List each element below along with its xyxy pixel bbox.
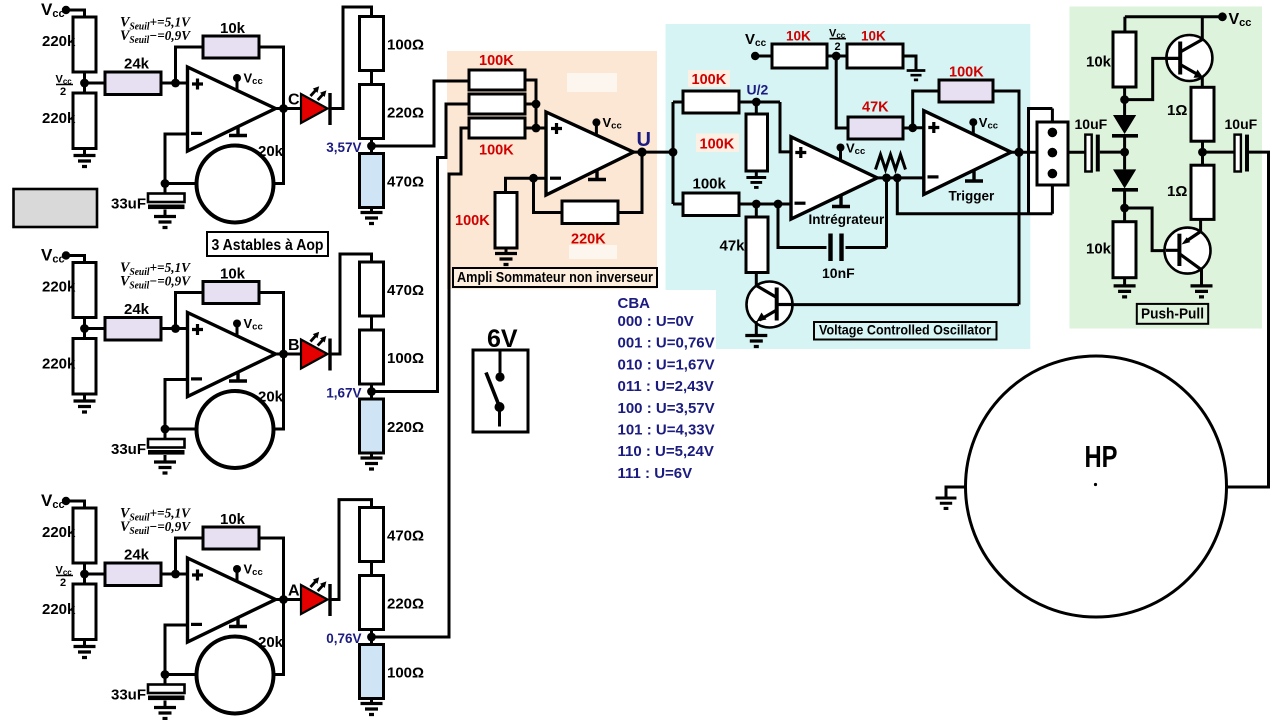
V_Seuil annotation astable A [120, 506, 192, 538]
feedback wire to 10k astable C [176, 47, 204, 83]
wire 100K to U/2 node [739, 101, 780, 104]
resistor 47k vertical [746, 217, 768, 273]
resistor R2 100K summing [469, 94, 525, 114]
svg-text:220Ω: 220Ω [387, 419, 424, 436]
Vcc supply VCO bias [745, 31, 767, 49]
wire 1ohm junction [1201, 141, 1204, 165]
svg-text:47K: 47K [862, 100, 889, 116]
svg-text:3 Astables à Aop: 3 Astables à Aop [212, 237, 324, 254]
ground chain astable C [361, 208, 383, 224]
svg-text:2: 2 [835, 41, 841, 53]
wire Vcc to divider astable A [66, 501, 85, 508]
node plus input astable A [171, 570, 180, 579]
potentiometer 20k astable A [197, 637, 274, 714]
op-amp ground pin integrator [832, 196, 850, 207]
Vcc node astable B [62, 251, 70, 259]
wire 10k to output astable B [259, 293, 284, 355]
wire emitter Q3 to 1ohm [1199, 219, 1202, 231]
VCO section background (cyan) [666, 24, 1031, 349]
node Vcc/2 VCO [832, 52, 841, 61]
resistor 10k astable A [203, 527, 259, 549]
svg-text:111 : U=6V: 111 : U=6V [618, 465, 693, 482]
wire to 100K input resistor [673, 101, 683, 104]
ground speaker [936, 498, 957, 508]
tap node astable A [367, 633, 376, 642]
svg-text:10k: 10k [1086, 54, 1112, 71]
wire R1 R2 R3 to plus input [525, 80, 546, 128]
wire 10K junction Vcc/2 [827, 55, 847, 58]
svg-text:100Ω: 100Ω [387, 350, 424, 367]
wire LED to resistor chain astable C [330, 7, 372, 109]
highlight 100K label upper [688, 70, 730, 87]
ground 10k lower [1114, 278, 1136, 297]
svg-text:10K: 10K [861, 29, 886, 44]
svg-text:3,57V: 3,57V [326, 140, 361, 155]
svg-text:10uF: 10uF [1225, 116, 1258, 132]
svg-text:Vcc: Vcc [244, 316, 263, 333]
svg-text:100K: 100K [479, 143, 514, 159]
svg-text:470Ω: 470Ω [387, 282, 424, 299]
wire D2 to lower node [1123, 190, 1126, 222]
svg-text:1,67V: 1,67V [326, 386, 361, 401]
node minus input summing [529, 174, 538, 183]
svg-text:C: C [288, 92, 300, 109]
wire 24k to plus input astable A [161, 573, 188, 576]
wire Vcc to divider astable C [66, 10, 85, 17]
resistor 24k astable C [105, 72, 161, 95]
svg-text:100K: 100K [479, 53, 514, 69]
wire 220K to minus input [506, 178, 563, 212]
wire 10K right to ground [903, 56, 916, 70]
ground 33uF astable B [154, 462, 176, 473]
potentiometer 20k astable C [197, 146, 274, 223]
resistor 100Ω chain C position 1 [360, 17, 384, 71]
Vcc node push-pull [1218, 12, 1227, 21]
node capacitor 33uF astable C [161, 179, 170, 188]
wire 10k to output astable A [259, 538, 284, 600]
transistor Q1 VCO discharge [747, 282, 793, 328]
wire emitter Q2 to 1ohm [1201, 76, 1204, 87]
node 10nF branch [774, 200, 783, 209]
wire integrator output to trigger minus [877, 176, 924, 179]
node U/2 [752, 98, 761, 107]
sawtooth waveform icon [876, 155, 906, 170]
white patch lower in summing section [569, 245, 617, 259]
LED astable C [301, 86, 330, 125]
wire connector middle pin to cap [1068, 151, 1085, 154]
svg-text:24k: 24k [124, 547, 150, 564]
svg-text:220k: 220k [42, 356, 76, 373]
wire Vcc/2 down to 47K [836, 56, 848, 128]
svg-text:100Ω: 100Ω [387, 665, 424, 682]
node integrator output cap branch [882, 174, 891, 183]
feedback wire to 10k astable B [176, 293, 204, 329]
svg-text:Vcc: Vcc [41, 246, 65, 266]
svg-text:100K: 100K [700, 137, 735, 153]
resistor 100K to ground summing [495, 193, 517, 249]
node Vcc/2 astable C [80, 79, 89, 88]
wire potentiometer left astable C [165, 182, 197, 185]
svg-text:U: U [637, 129, 651, 151]
svg-text:33uF: 33uF [111, 196, 146, 213]
wire minus input to cap node astable C [165, 134, 188, 184]
Vcc supply push-pull [1229, 11, 1252, 29]
label Vcc/2 astable C [56, 74, 74, 99]
svg-text:24k: 24k [124, 301, 150, 318]
svg-text:24k: 24k [124, 56, 150, 73]
node diode midpoint [1120, 148, 1129, 157]
wire Vcc to divider astable B [66, 256, 85, 263]
capacitor 33uF astable A [148, 675, 185, 708]
label Vcc/2 VCO [829, 28, 846, 54]
op-amp Vcc pin astable A [233, 562, 263, 582]
svg-text:10nF: 10nF [822, 265, 855, 281]
speaker center dot [1094, 483, 1097, 486]
push-pull section background (green) [1070, 7, 1263, 329]
node trigger plus input [908, 123, 917, 132]
svg-text:001 : U=0,76V: 001 : U=0,76V [618, 335, 715, 352]
ground Q3 [1191, 286, 1213, 297]
node trigger output [1014, 148, 1023, 157]
op-amp astable C [188, 67, 276, 151]
resistor 1ohm upper [1191, 87, 1214, 141]
V_Seuil annotation astable B [120, 260, 192, 292]
Vcc node astable C [62, 6, 70, 14]
connector 3-pin [1037, 122, 1068, 185]
wire 47k to transistor [755, 273, 758, 287]
svg-text:20k: 20k [258, 634, 284, 651]
ground 100K U/2 [746, 171, 766, 187]
resistor 10k upper push-pull [1113, 32, 1136, 87]
op-amp integrator [791, 137, 877, 219]
svg-text:Ampli Sommateur non inverseur: Ampli Sommateur non inverseur [457, 270, 653, 286]
grey legend box [14, 189, 98, 227]
chain connecting wires astable B [370, 316, 373, 399]
resistor 470Ω chain A position 1 [360, 508, 384, 562]
wire U/2 to integrator plus [780, 102, 791, 152]
svg-text:010 : U=1,67V: 010 : U=1,67V [618, 356, 715, 373]
svg-text:220Ω: 220Ω [387, 105, 424, 122]
node integrator output connector branch [893, 174, 902, 183]
wire 10k to output astable C [259, 47, 284, 109]
resistor 24k astable A [105, 563, 161, 586]
resistor 220k lower divider astable C [73, 93, 96, 149]
resistor 47K lavender [848, 117, 903, 139]
wire base upper transistor [1125, 58, 1167, 99]
svg-text:100k: 100k [693, 176, 727, 193]
wire output to potentiometer astable A [274, 600, 284, 675]
svg-text:10uF: 10uF [1075, 116, 1108, 132]
Vcc node astable A [62, 497, 70, 505]
ground 33uF astable A [154, 708, 176, 719]
op-amp Vcc pin astable C [233, 71, 263, 91]
resistor R3 100K summing [469, 118, 525, 138]
resistor 100K U/2 to ground [746, 114, 768, 171]
wire trigger feedback [913, 91, 1019, 152]
node U output [637, 148, 646, 157]
wire minus input to cap node astable A [165, 625, 188, 675]
op-amp Vcc pin trigger [969, 115, 998, 134]
op-amp U summing [546, 112, 634, 195]
capacitor 10uF input [1085, 135, 1100, 172]
wire D1 to mid node [1123, 136, 1126, 170]
resistor 10k astable C [203, 36, 259, 58]
svg-text:220k: 220k [42, 524, 76, 541]
svg-text:110 : U=5,24V: 110 : U=5,24V [618, 443, 714, 460]
ground 100K summing [495, 248, 517, 265]
diode D2 [1112, 169, 1138, 189]
resistor 220k upper divider astable C [73, 17, 96, 72]
svg-text:100K: 100K [692, 72, 727, 88]
resistor 220Ω chain C position 2 [360, 85, 384, 139]
op-amp astable B [188, 313, 276, 397]
resistor 220k lower divider astable B [73, 339, 96, 395]
op-amp ground pin astable B [229, 372, 247, 381]
speaker HP [966, 356, 1227, 617]
label box Voltage Controlled Oscillator [814, 322, 997, 340]
svg-text:100K: 100K [455, 213, 490, 229]
node plus input summing [532, 124, 541, 133]
highlight 100K label lower [696, 134, 739, 153]
op-amp ground pin astable C [229, 127, 247, 136]
svg-text:2: 2 [60, 86, 66, 98]
ground divider astable C [74, 149, 96, 167]
tap node astable B [367, 387, 376, 396]
svg-text:47k: 47k [720, 238, 746, 255]
ground divider astable B [74, 394, 96, 412]
wire output to LED astable A [276, 598, 302, 601]
wire tap B to summing resistor [372, 104, 470, 392]
LED astable A [301, 577, 330, 616]
wire divider middle astable C [83, 72, 86, 93]
node base upper [1120, 95, 1129, 104]
svg-text:011 : U=2,43V: 011 : U=2,43V [618, 378, 714, 395]
wire U into VCO [672, 102, 675, 204]
node capacitor 33uF astable B [161, 425, 170, 434]
svg-text:0,76V: 0,76V [326, 631, 361, 646]
svg-text:220Ω: 220Ω [387, 596, 424, 613]
diode D1 [1112, 115, 1138, 136]
wire Vcc rail push-pull [1125, 17, 1223, 40]
svg-text:10K: 10K [786, 29, 811, 44]
svg-text:470Ω: 470Ω [387, 174, 424, 191]
node 47k branch [752, 200, 761, 209]
wire trigger output to transistor base [793, 152, 1020, 304]
wire LED to resistor chain astable A [330, 500, 372, 600]
feedback wire to 220K [618, 152, 642, 212]
resistor 10k lower push-pull [1113, 222, 1136, 278]
Vcc supply label astable C [41, 0, 65, 20]
svg-text:100 : U=3,57V: 100 : U=3,57V [618, 400, 715, 417]
svg-text:100Ω: 100Ω [387, 37, 424, 54]
op-amp ground pin summing [588, 170, 606, 180]
wire output to potentiometer astable B [274, 354, 284, 429]
truth table CBA [618, 295, 715, 482]
resistor 1ohm lower [1191, 165, 1214, 219]
Vcc node VCO bias [751, 52, 759, 60]
ground transistor VCO [745, 336, 767, 347]
svg-text:Vcc: Vcc [41, 491, 65, 511]
svg-text:Intrégrateur: Intrégrateur [809, 212, 886, 227]
Vcc supply label astable A [41, 491, 65, 511]
svg-text:220k: 220k [42, 33, 76, 50]
wire Vcc to 10K [755, 55, 772, 58]
ground divider astable A [74, 640, 96, 658]
ground chain astable A [361, 699, 383, 715]
wire tap C to summing resistor [372, 81, 470, 146]
capacitor 33uF astable C [148, 184, 185, 217]
resistor 10K left bias [772, 44, 827, 68]
svg-text:33uF: 33uF [111, 687, 146, 704]
resistor 220K feedback [562, 201, 618, 224]
svg-text:Vcc: Vcc [244, 562, 263, 579]
wire output to cap 10uF [1203, 151, 1235, 154]
svg-text:10k: 10k [1086, 241, 1112, 258]
resistor 100k U to minus [683, 193, 739, 216]
wire trigger output to connector [1011, 151, 1037, 154]
white patch upper in summing section [567, 73, 617, 92]
wire Vcc/2 to 24k astable B [85, 327, 106, 330]
transistor Q2 NPN upper push-pull [1166, 35, 1212, 81]
output node A [279, 595, 288, 604]
svg-text:20k: 20k [258, 389, 284, 406]
svg-text:A: A [288, 583, 300, 600]
tap node astable C [367, 142, 376, 151]
wire U/2 to resistor [755, 102, 758, 114]
wire output to potentiometer astable C [274, 109, 284, 184]
wire U to 100k [673, 203, 683, 206]
svg-text:10k: 10k [220, 20, 246, 37]
label box Push-Pull [1137, 304, 1208, 324]
wire transistor emitter to ground [755, 321, 758, 335]
resistor 220k upper divider astable B [73, 263, 96, 318]
label box 3 Astables a Aop [207, 232, 328, 256]
resistor 100Ω chain A position 3 [360, 645, 384, 699]
wire speaker to ground [946, 487, 966, 498]
svg-text:000 : U=0V: 000 : U=0V [618, 313, 694, 330]
resistor 10k astable B [203, 282, 259, 304]
wire potentiometer left astable B [165, 428, 197, 431]
svg-text:100K: 100K [949, 65, 984, 81]
resistor 220k upper divider astable A [73, 508, 96, 563]
svg-text:101 : U=4,33V: 101 : U=4,33V [618, 422, 715, 439]
ground bias VCO [907, 71, 926, 80]
node capacitor 33uF astable A [161, 670, 170, 679]
svg-text:Trigger: Trigger [949, 189, 996, 204]
svg-text:Push-Pull: Push-Pull [1141, 307, 1204, 323]
resistor 100K input to U/2 [683, 91, 739, 113]
wire U output [634, 151, 674, 154]
wire minus input to cap node astable B [165, 380, 188, 430]
Vcc supply label astable B [41, 246, 65, 266]
svg-text:33uF: 33uF [111, 441, 146, 458]
wire 24k to plus input astable C [161, 82, 188, 85]
node Vcc/2 astable A [80, 570, 89, 579]
svg-text:10k: 10k [220, 511, 246, 528]
svg-text:470Ω: 470Ω [387, 528, 424, 545]
wire 24k to plus input astable B [161, 327, 188, 330]
wire divider middle astable A [83, 563, 86, 584]
op-amp Vcc pin summing [592, 115, 621, 135]
feedback wire to 10k astable A [176, 538, 204, 574]
op-amp ground pin astable A [229, 618, 247, 627]
wire base lower transistor [1125, 208, 1166, 251]
chain connecting wires astable C [370, 71, 373, 154]
wire collector Q3 to ground [1200, 269, 1203, 285]
summing amplifier section background (orange) [447, 51, 657, 289]
switch 6V box [473, 350, 528, 432]
svg-text:Vcc: Vcc [41, 0, 65, 20]
resistor 470Ω chain C position 3 [360, 154, 384, 208]
svg-text:1Ω: 1Ω [1167, 183, 1187, 200]
svg-text:10k: 10k [220, 266, 246, 283]
svg-text:1Ω: 1Ω [1167, 102, 1187, 119]
op-amp Vcc pin integrator [837, 141, 866, 161]
svg-text:2: 2 [60, 577, 66, 589]
node base lower [1120, 204, 1129, 213]
node Vcc/2 astable B [80, 324, 89, 333]
output node B [279, 350, 288, 359]
resistor 220k lower divider astable A [73, 584, 96, 640]
chain connecting wires astable A [370, 562, 373, 645]
output node C [279, 104, 288, 113]
op-amp ground pin trigger [965, 171, 983, 182]
resistor 100K trigger feedback [939, 80, 993, 102]
potentiometer 20k astable B [197, 391, 274, 468]
wire output to LED astable B [276, 353, 302, 356]
wire 100k to integrator minus [739, 203, 791, 206]
op-amp trigger [924, 111, 1011, 195]
wire Vcc/2 to 24k astable C [85, 82, 106, 85]
transistor Q3 PNP lower push-pull [1165, 228, 1211, 274]
svg-text:20k: 20k [258, 143, 284, 160]
resistor 220Ω chain A position 2 [360, 576, 384, 630]
wire divider middle astable B [83, 318, 86, 339]
node R2 junction [532, 100, 541, 109]
LED astable B [301, 332, 330, 371]
ground chain astable B [361, 453, 383, 469]
svg-text:220k: 220k [42, 110, 76, 127]
wire 47K to trigger plus node [903, 127, 913, 130]
op-amp Vcc pin astable B [233, 316, 263, 336]
capacitor 10nF [778, 178, 887, 261]
node U branch [669, 148, 678, 157]
wire Vcc/2 to 24k astable A [85, 573, 106, 576]
capacitor 33uF astable B [148, 429, 185, 462]
capacitor 10uF output [1235, 135, 1250, 172]
node plus input astable C [171, 79, 180, 88]
resistor 24k astable B [105, 318, 161, 341]
svg-text:Voltage Controlled Oscillator: Voltage Controlled Oscillator [819, 323, 992, 338]
wire output to LED astable C [276, 107, 302, 110]
wire 10k to diode D1 [1123, 87, 1126, 115]
ground 33uF astable C [154, 217, 176, 228]
svg-text:Vcc: Vcc [244, 71, 263, 88]
white panel behind truth table [610, 290, 716, 350]
label box Ampli Sommateur non inverseur [453, 268, 657, 287]
svg-text:U/2: U/2 [747, 82, 769, 98]
wire LED to resistor chain astable B [330, 254, 372, 354]
wire potentiometer left astable A [165, 673, 197, 676]
node output push-pull [1198, 148, 1207, 157]
resistor R1 100K summing [469, 70, 525, 90]
wire tap A to summing resistor [372, 128, 470, 637]
svg-text:220K: 220K [571, 232, 606, 248]
svg-text:220k: 220k [42, 601, 76, 618]
V_Seuil annotation astable C [120, 15, 192, 47]
wire minus node to 47k [755, 204, 758, 217]
resistor 220Ω chain B position 3 [360, 399, 384, 453]
